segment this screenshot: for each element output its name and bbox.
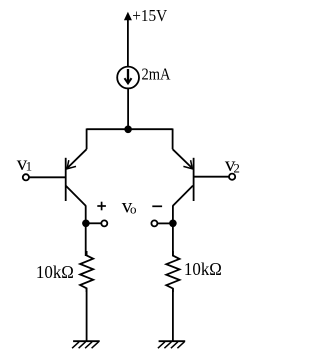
svg-text:10kΩ: 10kΩ	[36, 262, 74, 282]
svg-text:o: o	[130, 201, 137, 216]
svg-text:10kΩ: 10kΩ	[184, 259, 222, 279]
svg-text:+15V: +15V	[132, 6, 168, 25]
svg-text:1: 1	[26, 158, 32, 173]
svg-text:2: 2	[233, 161, 240, 176]
svg-text:2mA: 2mA	[142, 64, 172, 83]
